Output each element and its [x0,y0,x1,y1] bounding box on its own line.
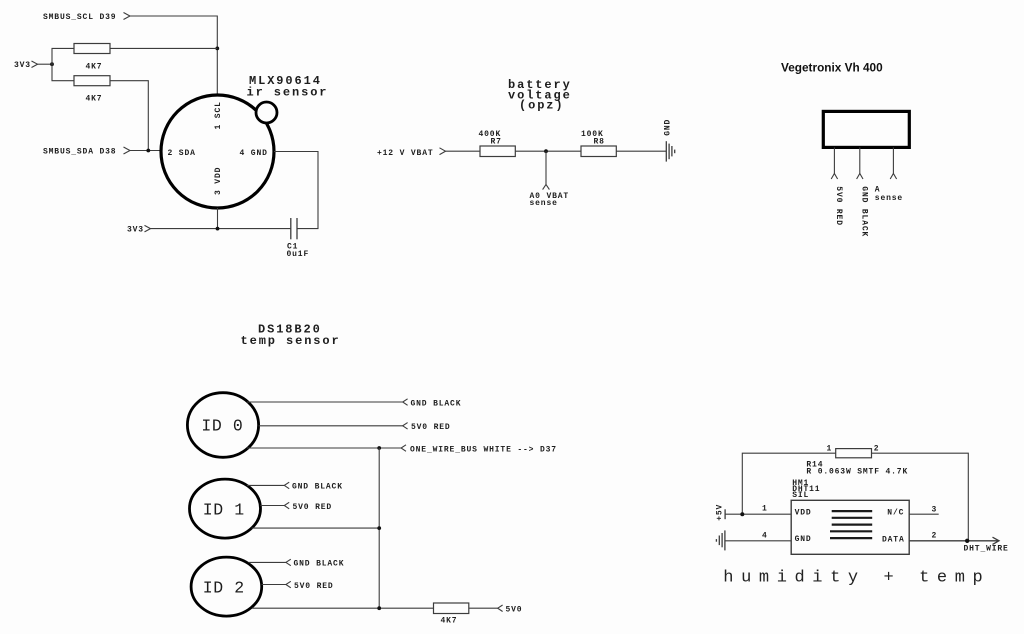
node A0 VBAT sense (open pin chevron) [543,185,550,190]
arrow DHT_WIRE [993,537,1000,544]
wire R7 to R8 [515,150,581,152]
wire ID1 to bus [252,527,380,529]
svg-text:temp sensor: temp sensor [241,334,341,348]
svg-text:ir sensor: ir sensor [247,86,329,100]
svg-text:R 0.063W SMTF 4.7K: R 0.063W SMTF 4.7K [806,468,908,477]
svg-text:3: 3 [932,505,938,514]
svg-text:2: 2 [932,532,938,541]
wire resistor to SCL node [110,47,217,49]
node VDD junction [216,227,220,231]
wire SCL from label to circle pin 1 [130,16,217,95]
svg-text:DHT_WIRE: DHT_WIRE [964,545,1009,554]
svg-text:3 VDD: 3 VDD [214,167,223,195]
wire SDA to circle pin 2 [130,150,161,152]
wire R14 loop left [742,453,835,514]
sensor body (box) [823,111,909,147]
svg-text:5V0 RED: 5V0 RED [294,582,334,591]
svg-text:SMBUS_SDA D38: SMBUS_SDA D38 [43,148,116,157]
wire ground to pin 4 GND [725,540,791,542]
node 3V3 junction [50,62,54,66]
wire R8 to ground [616,150,666,152]
pin 3 wire A sense [892,147,894,173]
svg-text:GND BLACK: GND BLACK [411,399,462,408]
wire +5V to pin 1 VDD [725,513,791,515]
svg-text:ONE_WIRE_BUS WHITE --> D37: ONE_WIRE_BUS WHITE --> D37 [410,445,557,454]
wire pullup to 5V0 [469,607,498,609]
svg-text:R7: R7 [491,138,502,147]
svg-text:2 SDA: 2 SDA [168,149,196,158]
wire pin3 VDD down [217,208,219,229]
svg-text:1: 1 [827,444,833,453]
svg-text:ID 0: ID 0 [201,417,243,436]
svg-text:ID 1: ID 1 [203,500,245,519]
ground (earth, rotated left) [724,530,726,550]
node VBAT sense junction [544,149,548,153]
svg-text:sense: sense [530,199,558,208]
svg-text:GND BLACK: GND BLACK [294,560,345,569]
svg-text:ID 2: ID 2 [203,579,245,598]
heater bars inside DHT11 [832,510,873,512]
capacitor C1 0u1F [290,218,292,239]
svg-text:GND: GND [795,535,812,544]
node one-wire junction ID1 [377,526,381,530]
svg-text:4: 4 [762,531,768,540]
svg-text:5V0 RED: 5V0 RED [411,423,451,432]
svg-text:Vegetronix Vh 400: Vegetronix Vh 400 [781,61,883,75]
svg-text:VDD: VDD [795,509,812,518]
sensor ID 0 (circle) [187,393,258,458]
svg-text:SIL: SIL [792,491,809,500]
wire one-wire bus vertical [378,448,380,608]
wire R14 loop right [872,453,969,541]
node +5V junction [740,512,744,516]
svg-text:3V3: 3V3 [14,61,31,70]
svg-text:R8: R8 [594,138,605,147]
svg-text:2: 2 [874,444,880,453]
wire pullup branch [52,48,74,80]
resistor R14 [836,449,872,458]
svg-text:humidity + temp: humidity + temp [723,569,990,588]
node DATA junction [965,539,969,543]
svg-text:4K7: 4K7 [86,63,103,72]
wire ID0 one-wire bus [247,447,401,449]
svg-text:1 SCL: 1 SCL [214,101,223,129]
svg-text:4 GND: 4 GND [240,149,268,158]
wire ID0 5V0 [259,425,403,427]
wire ID1 GND [247,484,284,486]
IC body HM1 DHT11 (box) [791,500,909,554]
resistor R7 400K [480,146,515,157]
wire ID2 5V0 [262,584,286,586]
wire ID2 GND [249,561,286,563]
svg-text:3V3: 3V3 [127,226,144,235]
pin 1 wire 5V0 RED [833,147,835,173]
node one-wire junction ID0 [377,446,381,450]
svg-text:0u1F: 0u1F [287,250,310,259]
node one-wire junction ID2 [377,606,381,610]
power +5V (bar symbol) [724,509,726,519]
resistor 4K7 (lower pullup) [74,76,110,86]
resistor R8 100K [581,146,616,157]
svg-text:5V0: 5V0 [506,606,523,615]
svg-text:GND BLACK: GND BLACK [292,483,343,492]
svg-text:+5V: +5V [715,504,724,521]
wire 3V3 bottom rail [151,228,291,230]
wire 3V3 to pullups [38,63,53,65]
svg-text:+12 V VBAT: +12 V VBAT [377,149,434,158]
wire ID2 to pullup [252,607,434,609]
sensor ID 1 (circle) [190,479,261,538]
wire ID0 GND [247,401,403,403]
wire to R7 [446,150,481,152]
node SDA junction [146,149,150,153]
sensor ID 2 (circle) [191,557,262,616]
svg-text:5V0 RED: 5V0 RED [834,186,843,226]
svg-text:GND BLACK: GND BLACK [860,186,869,237]
resistor 4K7 (upper pullup) [74,44,110,54]
svg-text:N/C: N/C [887,509,904,518]
svg-text:DATA: DATA [882,536,905,545]
sensor tab (small circle) [256,102,277,123]
wire pin 2 DATA to DHT_WIRE [909,540,999,542]
svg-text:GND: GND [663,119,672,136]
svg-text:sense: sense [875,194,903,203]
wire ID1 5V0 [260,505,284,507]
svg-text:1: 1 [762,504,768,513]
wire to A0 sense [545,151,547,184]
wire pin4 GND to capacitor [274,152,318,229]
node junction SCL/resistor [215,47,219,51]
svg-text:5V0 RED: 5V0 RED [293,503,333,512]
wire resistor to SDA [110,81,148,151]
wire pin 3 N/C [909,513,939,515]
svg-text:(opz): (opz) [519,99,565,113]
ground GND (earth, rotated right) [665,141,667,161]
svg-text:4K7: 4K7 [86,95,103,104]
pin 2 wire GND BLACK [859,147,861,173]
svg-text:4K7: 4K7 [441,616,458,625]
resistor 4K7 (one-wire pullup) [434,603,469,614]
svg-text:SMBUS_SCL D39: SMBUS_SCL D39 [43,13,116,22]
sensor body U MLX90614 (circle) [161,95,274,208]
